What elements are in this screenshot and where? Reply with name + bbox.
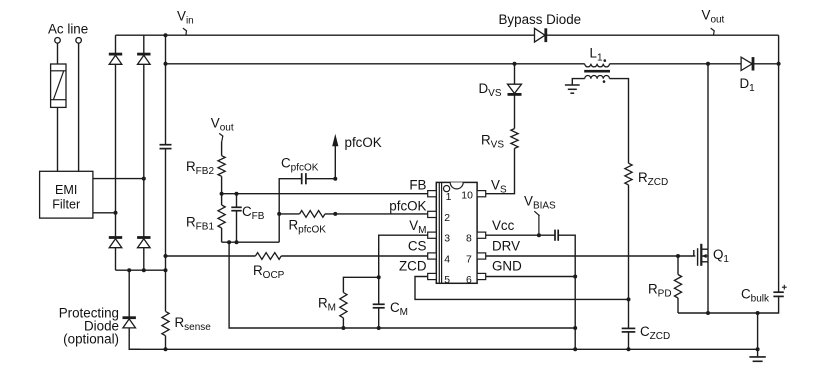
node: source at rail — [706, 311, 710, 315]
diode bridge D-bottom-left — [109, 238, 122, 248]
capacitor Cvcc — [555, 230, 558, 241]
node: bridge column 2 bottom — [142, 268, 146, 272]
wire: Cbulk bottom to source rail — [678, 296, 779, 313]
node: RpfcOK left tap — [277, 212, 281, 216]
terminal circle left — [55, 38, 61, 44]
wire: D1 to output corner — [753, 63, 779, 65]
L1 phase dot secondary — [603, 80, 606, 83]
wire: Q1 drain from bus — [707, 64, 709, 249]
svg-text:pfcOK: pfcOK — [345, 135, 382, 150]
wire: ZCD pin loop — [415, 277, 629, 300]
svg-text:(optional): (optional) — [63, 332, 119, 347]
wire: ground drop — [757, 313, 759, 357]
node: FB divider node — [220, 192, 224, 196]
wire: GND pin to drop — [486, 276, 576, 278]
wire: RVS to DVS — [514, 95, 516, 129]
node: gate / RPD tap — [676, 254, 680, 258]
Q1 gate hook — [693, 250, 695, 256]
svg-text:pfcOK: pfcOK — [389, 199, 426, 214]
inductor L1 primary — [585, 64, 610, 67]
wire: ROCP to CS pin — [281, 255, 428, 257]
wire: DRV pin to gate — [486, 255, 694, 257]
svg-text:7: 7 — [466, 254, 472, 265]
svg-text:2: 2 — [444, 213, 450, 224]
diode D1 — [741, 57, 753, 70]
node: timing rail at GND drop — [573, 326, 577, 330]
capacitor CpfcOK — [302, 173, 306, 184]
node: VM/RM/CM node — [377, 275, 381, 279]
ground symbol at L1 — [565, 85, 580, 93]
wire: Vcc pin to VBIAS cap — [486, 234, 555, 236]
protecting diode (optional) — [123, 318, 136, 328]
wire: left AC lead into fuse — [57, 43, 59, 64]
fuse F1 — [51, 64, 66, 107]
wire: CS pin to sense line — [166, 255, 256, 257]
svg-text:EMI: EMI — [55, 183, 77, 197]
wire: Q1 source down — [707, 262, 709, 313]
wire: Vin top bus — [116, 34, 535, 36]
node: rectified bus at input cap line — [164, 62, 168, 66]
Vin terminal tick — [183, 28, 187, 31]
resistor RFB1 — [221, 194, 223, 205]
svg-text:FB: FB — [409, 178, 426, 193]
wire: protecting diode to ground bus corner — [129, 328, 140, 349]
wire: VM pin to RM/CM node — [379, 235, 428, 277]
wire: right AC lead to EMI filter — [78, 43, 80, 171]
wire: DVS to rectified bus — [514, 64, 516, 84]
diode bridge D-top-left — [109, 54, 122, 64]
wire: RPD bottom to source rail — [677, 298, 679, 313]
wire: pfcOK node to pin 2 — [325, 213, 428, 215]
bypass diode — [535, 28, 546, 42]
node: ground drop on source rail — [756, 311, 760, 315]
node: EMI upper to bridge column 2 — [142, 177, 146, 181]
wire: Rsense to ground bus — [165, 336, 167, 350]
op-amp / controller IC U1 body — [436, 182, 477, 283]
resistor RPD — [677, 256, 679, 275]
pin 4 — [428, 253, 437, 259]
wire: divider bottom drop to timing rail — [229, 242, 343, 328]
L1 phase dot primary — [604, 59, 607, 62]
node: Rsense at ground bus — [164, 347, 168, 351]
node: CM bottom — [377, 326, 381, 330]
node: bridge return to sense line — [164, 268, 168, 272]
node: CZCD at ground bus — [627, 347, 631, 351]
pin numbers — [444, 191, 473, 287]
node: DVS tap on bus — [513, 62, 517, 66]
wire: protecting diode branch upper — [128, 270, 130, 318]
wire: CpfcOK right to pfcOK node — [306, 178, 335, 180]
resistor ROCP — [255, 253, 281, 260]
pin 2 — [428, 211, 437, 217]
svg-text:DRV: DRV — [492, 239, 520, 254]
node: CFB bottom — [235, 240, 239, 244]
wire: L1 secondary left to ground — [572, 79, 584, 85]
capacitor CFB — [231, 194, 241, 243]
wire: timing rail to GND drop — [343, 327, 575, 329]
EMI filter box — [40, 171, 93, 218]
node: Vin bus / input cap — [164, 33, 168, 37]
svg-text:1: 1 — [446, 192, 452, 203]
resistor Rsense — [162, 311, 169, 335]
node: GND wire junction — [573, 275, 577, 279]
diode bridge D-top-right — [137, 54, 150, 64]
wire: RFB2 to FB node — [221, 176, 223, 193]
pin 5 — [428, 273, 437, 279]
resistor RVS — [511, 129, 518, 149]
svg-text:3: 3 — [444, 234, 450, 245]
wire: bridge bottom return — [116, 269, 166, 271]
svg-text:6: 6 — [466, 275, 472, 286]
svg-text:Vcc: Vcc — [492, 218, 515, 233]
node: ground drop at bus — [756, 347, 760, 351]
svg-text:Filter: Filter — [52, 198, 80, 212]
diode bridge D-bottom-right — [137, 238, 150, 248]
pin 8 — [477, 232, 486, 238]
resistor RFB2 — [218, 156, 225, 177]
node: EMI lower to bridge column 1 — [114, 211, 118, 215]
node: D1 cathode at output rail — [777, 62, 781, 66]
wire: input cap line upper — [165, 35, 167, 145]
wire: L1 secondary right to RZCD — [610, 79, 629, 164]
wire: L1 to D1 — [610, 63, 742, 65]
wire: bridge column 1 upper — [115, 35, 117, 54]
wire: bridge column 2 upper — [143, 35, 145, 54]
resistor RpfcOK — [279, 213, 299, 215]
svg-text:Ac line: Ac line — [48, 22, 88, 37]
node: pfcOK node at resistor — [333, 212, 337, 216]
Vout tick left — [219, 133, 223, 136]
wire: FB wire to pin 1 — [222, 193, 428, 195]
wire: RM bottom to timing rail — [342, 318, 344, 328]
label: Protecting Diode (optional) — [59, 306, 119, 347]
svg-text:CS: CS — [408, 239, 427, 254]
wire: bridge column 2 lower — [143, 248, 145, 271]
diode DVS — [508, 84, 522, 94]
wire: Vout to RFB2 — [221, 142, 223, 156]
node: pfcOK node at cap — [333, 177, 337, 181]
node: protecting diode tap — [127, 268, 131, 272]
capacitor CZCD — [622, 299, 636, 349]
pin 7 — [477, 253, 486, 259]
wire: CpfcOK left leg — [279, 179, 302, 243]
wire: output rail right vertical — [778, 35, 780, 292]
pin 6 — [477, 273, 486, 279]
wire: ground bus — [129, 348, 757, 350]
wire: divider bottom rail — [222, 241, 280, 243]
VBIAS tick — [534, 211, 539, 216]
node: CS sense tap — [164, 254, 168, 258]
capacitor Cin — [160, 145, 172, 149]
svg-text:10: 10 — [461, 191, 473, 202]
terminal circle right — [76, 38, 82, 44]
wire: EMI filter lower output — [93, 212, 116, 214]
capacitor CM — [373, 277, 385, 328]
wire: EMI filter upper output — [93, 178, 144, 180]
wire: rectified bus to L1 — [166, 63, 585, 65]
capacitor Cbulk — [773, 285, 786, 297]
pfcOK arrow — [332, 134, 338, 179]
node: ZCD node — [627, 297, 631, 301]
node: CFB top on FB wire — [235, 192, 239, 196]
node: divider bottom drop — [227, 240, 231, 244]
resistor RM — [340, 293, 347, 318]
L1 core bar — [584, 70, 610, 73]
pin 10 — [477, 191, 486, 197]
wire: RFB1 to divider bottom — [221, 228, 223, 242]
wire: VS pin to RVS — [486, 148, 515, 193]
wire: Vcc cap to GND drop — [558, 235, 575, 349]
svg-text:8: 8 — [466, 234, 472, 245]
svg-text:5: 5 — [444, 275, 450, 286]
wire: bridge column 1 middle — [115, 64, 117, 237]
wire: fuse to EMI filter — [57, 107, 59, 171]
wire: bridge column 2 middle — [143, 64, 145, 237]
Vout terminal tick top — [711, 28, 715, 31]
pin 3 — [428, 232, 437, 238]
wire: node to RM top — [343, 277, 378, 292]
node: VBIAS tap — [537, 233, 541, 237]
wire: input cap line lower — [165, 149, 167, 312]
svg-text:Bypass Diode: Bypass Diode — [499, 12, 582, 27]
node: RM bottom — [341, 326, 345, 330]
inductor L1 secondary — [585, 75, 610, 78]
resistor RZCD — [625, 163, 632, 185]
wire: RZCD to ZCD node — [628, 185, 630, 300]
node: GND drop at ground bus — [573, 347, 577, 351]
svg-text:GND: GND — [492, 259, 522, 274]
ground symbol main — [749, 357, 765, 365]
node: Q1 drain tap on bus — [706, 62, 710, 66]
pin 1 — [428, 191, 437, 197]
svg-text:ZCD: ZCD — [399, 259, 427, 274]
wire: bridge column 1 lower — [115, 248, 117, 271]
transistor Q1 (N-MOSFET) — [698, 244, 708, 266]
svg-text:4: 4 — [444, 254, 450, 265]
